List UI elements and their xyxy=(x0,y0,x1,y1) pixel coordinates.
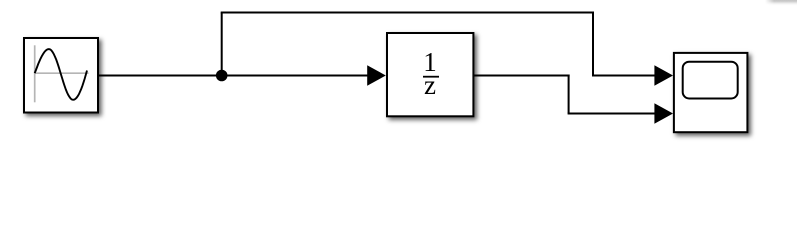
sine icon horizontal axis xyxy=(34,72,89,74)
block Scope body xyxy=(674,53,748,132)
wire: down to scope input 2 level xyxy=(568,75,570,114)
Scope screen xyxy=(683,62,738,99)
window shadow strip top-right xyxy=(765,0,797,6)
wire: into Scope input 2 xyxy=(568,113,657,115)
sine icon curve xyxy=(35,49,87,100)
wire: top rail down to scope input 1 level xyxy=(592,12,594,76)
wire: Sine Wave output to Unit Delay input xyxy=(98,75,369,77)
arrowhead into Scope input 2 xyxy=(654,103,673,123)
wire: junction up to top rail xyxy=(221,13,223,76)
arrowhead into Scope input 1 xyxy=(654,65,673,85)
arrowhead into Unit Delay xyxy=(367,65,386,85)
svg-text:z: z xyxy=(424,70,436,100)
sine icon vertical axis xyxy=(34,45,36,102)
block Unit Delay body xyxy=(387,33,473,116)
wire: top rail horizontal xyxy=(221,12,594,14)
junction node xyxy=(216,70,228,82)
window shadow strip left fade xyxy=(765,0,774,6)
block Sine Wave body xyxy=(24,38,98,113)
wire: into Scope input 1 xyxy=(592,75,657,77)
label Unit Delay fraction bar xyxy=(423,76,439,78)
wire: Unit Delay output xyxy=(473,75,569,77)
